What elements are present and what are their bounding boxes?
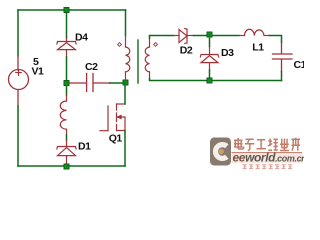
capacitor C1 bbox=[273, 43, 293, 72]
mosfet Q1 bbox=[100, 104, 125, 131]
wire top-right corner down to primary bbox=[125, 10, 127, 36]
wire top rail bbox=[18, 9, 126, 11]
inductor L1 bbox=[239, 29, 270, 35]
wire node F to C1 bottom bbox=[213, 80, 282, 82]
node E junction bbox=[207, 32, 212, 37]
wire Q1 source down bbox=[124, 131, 126, 167]
diode D3 bbox=[200, 47, 218, 71]
node C junction bbox=[123, 80, 128, 85]
wire node B down bbox=[66, 86, 68, 95]
wire L1 to top-right corner bbox=[270, 36, 282, 43]
logo chinese title bbox=[234, 138, 300, 151]
svg-text:eeworld.com.cn: eeworld.com.cn bbox=[233, 151, 305, 165]
primary phase dot bbox=[118, 43, 122, 47]
wire node E to L1 bbox=[213, 35, 240, 37]
wire secondary bottom corner bbox=[150, 79, 207, 81]
wire C2 to node C bbox=[110, 82, 124, 84]
svg-text:L1: L1 bbox=[252, 41, 264, 53]
node D junction (bottom rail) bbox=[64, 164, 69, 169]
logo slogan tiny text bbox=[243, 165, 293, 169]
wire Q1 drain up to node C bbox=[124, 86, 126, 105]
wire C1 down to bottom rail bbox=[281, 72, 283, 81]
diode D4 bbox=[57, 38, 76, 57]
svg-text:Q1: Q1 bbox=[109, 132, 123, 144]
logo badge bbox=[210, 138, 231, 166]
svg-text:C2: C2 bbox=[85, 61, 98, 73]
EEWorld watermark logo bbox=[210, 138, 307, 169]
wire D2 to node E bbox=[194, 35, 207, 37]
transformer core bbox=[137, 40, 139, 83]
wire D3 to node F bbox=[209, 70, 211, 78]
wire node E down to D3 bbox=[209, 38, 211, 47]
transformer primary winding bbox=[126, 36, 130, 80]
svg-text:V1: V1 bbox=[32, 65, 45, 77]
logo orange dot bbox=[219, 149, 224, 154]
wire top-D4 column bbox=[66, 10, 68, 38]
logo underline bbox=[232, 152, 303, 154]
logo C glyph bbox=[215, 145, 226, 159]
svg-text:C1: C1 bbox=[294, 59, 305, 71]
node B junction bbox=[64, 80, 69, 85]
wire inductor to D1 bbox=[66, 135, 68, 140]
secondary phase dot bbox=[154, 43, 158, 47]
wire bottom rail bbox=[18, 165, 125, 167]
transformer secondary winding bbox=[145, 38, 149, 79]
svg-text:D2: D2 bbox=[180, 44, 193, 56]
diode D1 bbox=[57, 140, 76, 164]
wire D4 to node B bbox=[66, 57, 68, 80]
diode D2 bbox=[174, 29, 194, 44]
inductor (magnetizing) bbox=[60, 95, 66, 135]
node A junction (top rail) bbox=[64, 7, 69, 12]
voltage source V1 bbox=[9, 56, 29, 106]
svg-text:D1: D1 bbox=[78, 140, 91, 152]
node F junction bbox=[207, 78, 212, 83]
capacitor C2 bbox=[70, 74, 110, 92]
wire left rail lower bbox=[17, 106, 19, 166]
wire secondary top corner bbox=[150, 36, 174, 39]
svg-text:D3: D3 bbox=[221, 47, 234, 59]
svg-text:D4: D4 bbox=[75, 32, 88, 44]
logo banner background bbox=[232, 153, 303, 163]
wire left rail upper bbox=[17, 10, 19, 56]
